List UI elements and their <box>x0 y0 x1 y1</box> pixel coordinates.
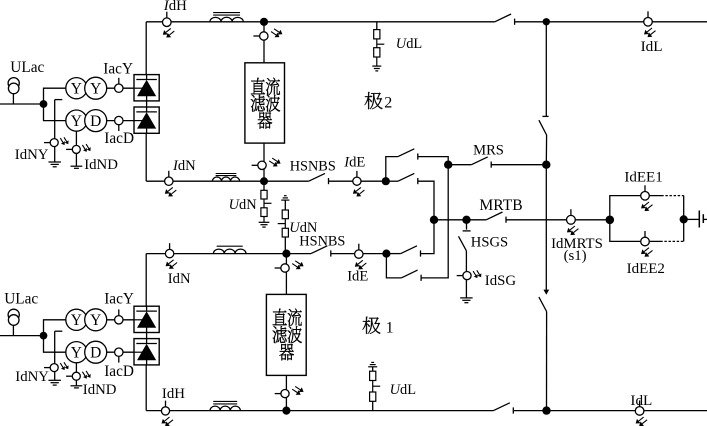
svg-text:Y: Y <box>71 312 82 329</box>
svg-text:MRS: MRS <box>473 143 504 159</box>
svg-text:IdEE1: IdEE1 <box>624 170 662 186</box>
svg-text:IdE: IdE <box>343 155 365 171</box>
svg-text:ULac: ULac <box>4 291 38 308</box>
svg-text:Y: Y <box>71 345 82 362</box>
svg-text:IdL: IdL <box>630 392 652 409</box>
svg-text:D: D <box>90 113 101 130</box>
svg-text:Y: Y <box>71 81 82 98</box>
svg-text:IacD: IacD <box>104 130 134 147</box>
svg-text:IdE: IdE <box>347 269 368 285</box>
svg-text:Y: Y <box>90 312 101 329</box>
svg-text:ULac: ULac <box>10 59 44 76</box>
svg-text:IacD: IacD <box>104 363 134 380</box>
svg-text:IdL: IdL <box>641 38 663 55</box>
svg-text:UdL: UdL <box>390 382 416 398</box>
svg-text:IdNY: IdNY <box>15 147 49 163</box>
svg-text:2: 2 <box>384 95 392 112</box>
svg-text:IdN: IdN <box>168 271 191 287</box>
svg-text:IdND: IdND <box>84 157 118 173</box>
svg-text:1: 1 <box>386 320 394 337</box>
svg-text:HSNBS: HSNBS <box>299 234 345 250</box>
svg-text:IdH: IdH <box>162 386 185 402</box>
svg-text:IdSG: IdSG <box>485 273 517 289</box>
svg-text:IdND: IdND <box>83 382 117 398</box>
svg-text:(s1): (s1) <box>564 248 587 264</box>
svg-text:IacY: IacY <box>103 61 133 78</box>
svg-text:IdN: IdN <box>172 158 196 174</box>
svg-text:IdEE2: IdEE2 <box>627 261 665 277</box>
svg-text:Y: Y <box>90 81 101 98</box>
svg-text:UdL: UdL <box>396 36 422 52</box>
svg-text:D: D <box>90 345 101 362</box>
svg-text:HSNBS: HSNBS <box>290 159 336 175</box>
svg-text:IacY: IacY <box>104 290 134 307</box>
svg-text:MRTB: MRTB <box>479 197 522 214</box>
svg-text:IdH: IdH <box>163 0 187 14</box>
svg-text:HSGS: HSGS <box>471 235 508 251</box>
svg-text:UdN: UdN <box>229 197 258 213</box>
svg-text:IdNY: IdNY <box>15 369 49 385</box>
svg-text:Y: Y <box>71 113 82 130</box>
